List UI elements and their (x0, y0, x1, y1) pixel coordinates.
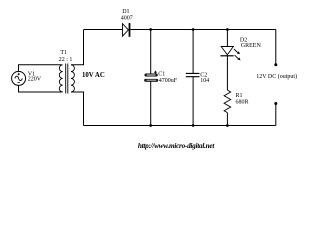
V1 sine wave (15, 76, 22, 80)
wire C2 branch bottom (192, 77, 194, 126)
junction dot bottom rail C2 (192, 124, 195, 127)
transformer T1 secondary winding (71, 65, 74, 92)
wire D2 to R1 (226, 56, 228, 90)
V1 minus mark (17, 82, 20, 84)
svg-text:4700uF: 4700uF (159, 78, 178, 84)
wire primary loop left top (19, 65, 62, 72)
junction dot top rail D2 (226, 28, 229, 31)
wire output top segment (275, 30, 277, 65)
svg-text:T1: T1 (60, 50, 67, 56)
transformer T1 primary winding (59, 65, 62, 92)
svg-text:GREEN: GREEN (241, 43, 262, 49)
output terminal dot bottom (274, 102, 277, 105)
wire R1 bottom (226, 113, 228, 126)
junction dot bottom rail D2 (226, 124, 229, 127)
wire top rail left of D1 (84, 29, 123, 31)
wire C1 branch top (150, 30, 152, 74)
junction dot top rail C2 (192, 28, 195, 31)
svg-text:12V DC (output): 12V DC (output) (256, 73, 297, 80)
svg-text:220V: 220V (28, 77, 42, 83)
capacitor C1 bottom plate (145, 79, 158, 81)
svg-text:C1: C1 (158, 72, 165, 78)
wire secondary bottom stub (71, 92, 84, 126)
LED D2 arrow 1 (234, 49, 238, 53)
svg-text:104: 104 (200, 78, 209, 84)
capacitor C1 plus mark (154, 71, 157, 74)
svg-text:680R: 680R (236, 99, 249, 105)
capacitor C2 plates (186, 73, 200, 76)
junction dot top rail C1 (149, 28, 152, 31)
svg-text:D1: D1 (122, 9, 129, 15)
wire secondary top stub (71, 30, 84, 65)
V1 plus mark (17, 73, 20, 76)
AC source V1 (12, 71, 26, 85)
junction dot bottom rail C1 (149, 124, 152, 127)
resistor R1 zigzag (224, 90, 231, 113)
capacitor C1 top plate (145, 74, 158, 76)
transformer T1 core (66, 64, 68, 94)
wire primary loop left bottom (19, 85, 62, 92)
LED D2 arrow 2 (235, 55, 239, 59)
diode D1 (123, 24, 129, 37)
svg-text:22 : 1: 22 : 1 (59, 57, 73, 63)
wire top rail right of D1 (130, 29, 275, 31)
svg-text:R1: R1 (236, 93, 243, 99)
LED D2 triangle (221, 47, 233, 55)
wire C1 branch bottom (150, 81, 152, 125)
output terminal dot top (274, 63, 277, 66)
svg-text:10V AC: 10V AC (82, 72, 105, 79)
wire D2 branch top (226, 30, 228, 47)
svg-text:http://www.micro-digital.net: http://www.micro-digital.net (138, 142, 215, 150)
wire C2 branch top (192, 30, 194, 74)
LED D2 cathode bar (220, 55, 233, 57)
svg-text:4007: 4007 (121, 15, 133, 21)
wire bottom rail (84, 125, 276, 127)
wire output bottom segment (275, 104, 277, 126)
